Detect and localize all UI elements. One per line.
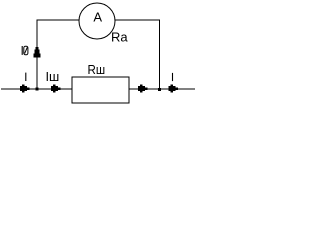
wire right vertical branch [159,20,161,90]
arrow current Ish [51,85,60,93]
arrow current I right [169,85,178,93]
arrow current I left [20,85,29,93]
wire bottom horizontal [1,88,195,90]
label I0 : I stroke [21,46,23,55]
wire top left segment [37,19,80,21]
junction node right [158,88,161,91]
label I0 : slashed zero [24,46,28,54]
wire top right segment [115,19,161,21]
ammeter U1 circle [79,3,115,39]
label I left [25,73,27,81]
slash of zero [25,47,28,53]
svg-text:Iш: Iш [46,69,60,84]
svg-text:A: A [93,10,102,25]
resistor Rsh box [72,77,129,103]
svg-text:Rш: Rш [88,62,106,77]
junction node left [36,88,39,91]
label I right [172,73,174,81]
arrow current I0 up (stepped pyramid) [33,47,40,57]
arrow after shunt [138,85,147,93]
svg-text:Ra: Ra [111,30,128,45]
wire left vertical branch [36,20,38,90]
